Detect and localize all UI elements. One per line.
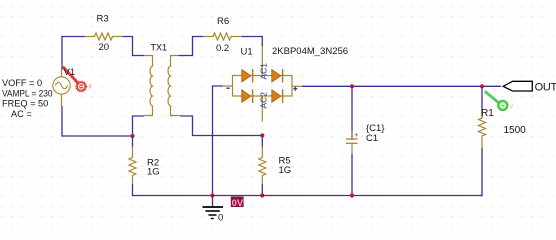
svg-text:20: 20 bbox=[99, 42, 110, 53]
svg-text:AC2: AC2 bbox=[259, 92, 269, 109]
wire R1 bottom to ground rail bbox=[480, 148, 482, 196]
wire C1 bottom bbox=[351, 154, 353, 196]
diode D3 bottom-left bbox=[242, 89, 253, 103]
diode D2 top-right bbox=[272, 69, 283, 83]
diode D4 bottom-right bbox=[272, 89, 283, 103]
svg-text:AC =: AC = bbox=[11, 109, 32, 119]
wire node A to TX1 primary bottom bbox=[133, 116, 145, 136]
svg-text:R3: R3 bbox=[97, 14, 109, 25]
wire V1 top to R3 bbox=[62, 37, 85, 71]
bottom ground rail wire bbox=[213, 195, 483, 197]
svg-text:U1: U1 bbox=[241, 47, 253, 58]
wire R6 to bridge AC1 pin bbox=[242, 37, 263, 47]
pin label plus bbox=[293, 87, 297, 91]
resistor R3 bbox=[85, 33, 123, 40]
wire ground stub bbox=[212, 196, 214, 207]
resistor R6 bbox=[203, 33, 242, 40]
svg-text:1G: 1G bbox=[147, 167, 160, 178]
wire node A to R2 bbox=[132, 136, 134, 147]
svg-text:AC1: AC1 bbox=[259, 63, 269, 80]
pin label minus bbox=[227, 87, 230, 89]
svg-text:VOFF = 0: VOFF = 0 bbox=[2, 78, 42, 88]
off-page connector OUT bbox=[503, 81, 556, 93]
svg-text:FREQ = 50: FREQ = 50 bbox=[2, 99, 48, 109]
wire TX1 secondary top to R6 bbox=[179, 37, 204, 56]
wire R5 bottom to ground rail bbox=[261, 184, 263, 196]
svg-text:VAMPL = 230: VAMPL = 230 bbox=[2, 89, 53, 99]
wire AC2 node to R5 bbox=[261, 136, 263, 148]
svg-text:C1: C1 bbox=[366, 133, 378, 144]
transformer TX1 bbox=[144, 56, 181, 116]
junction C1 top bbox=[350, 84, 354, 88]
wire R3 to TX1 primary top bbox=[123, 37, 145, 56]
voltage marker at OUT bbox=[485, 91, 514, 110]
current marker on V1 bbox=[63, 67, 91, 92]
junction AC2 node bbox=[260, 133, 264, 137]
junction ground rail bbox=[210, 193, 214, 197]
wire V1 bottom to node A bbox=[62, 106, 133, 136]
svg-text:OUT: OUT bbox=[535, 82, 556, 94]
svg-text:1G: 1G bbox=[279, 165, 292, 176]
svg-text:1500: 1500 bbox=[504, 125, 527, 136]
junction OUT node bbox=[480, 84, 484, 88]
svg-text:R6: R6 bbox=[217, 16, 229, 27]
wire bridge plus to OUT bbox=[302, 85, 501, 87]
svg-text:2KBP04M_3N256: 2KBP04M_3N256 bbox=[272, 46, 348, 57]
junction R5 ground bbox=[260, 193, 264, 197]
svg-text:R1: R1 bbox=[481, 108, 494, 119]
resistor R2 bbox=[129, 147, 136, 186]
svg-text:V1: V1 bbox=[64, 67, 76, 78]
resistor R1 bbox=[479, 112, 486, 149]
wire C1 top bbox=[351, 86, 353, 140]
svg-text:0.2: 0.2 bbox=[216, 43, 229, 54]
ground 0 symbol bbox=[203, 207, 224, 219]
voltage source V1 bbox=[53, 70, 70, 106]
svg-text:0: 0 bbox=[218, 213, 223, 224]
junction node A bbox=[130, 134, 134, 138]
svg-text:V: V bbox=[509, 102, 514, 111]
svg-text:TX1: TX1 bbox=[151, 43, 168, 53]
wire bridge minus to ground rail bbox=[213, 86, 223, 196]
diode D1 top-left bbox=[242, 69, 253, 83]
net label 0V bbox=[231, 197, 244, 209]
svg-text:0V: 0V bbox=[232, 198, 244, 209]
bridge rectifier U1 bbox=[223, 46, 303, 122]
resistor R5 bbox=[259, 147, 266, 185]
wire R2 bottom to ground rail bbox=[133, 184, 214, 196]
capacitor C1 bbox=[346, 131, 358, 154]
wire OUT node to R1 bbox=[481, 86, 483, 118]
junction C1 bottom bbox=[350, 193, 354, 197]
wire TX1 secondary bottom to AC2 bbox=[181, 116, 263, 136]
